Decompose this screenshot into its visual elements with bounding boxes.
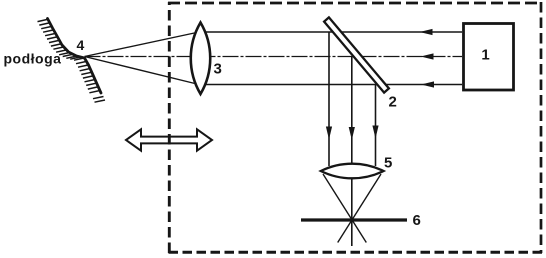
converging ray from left tip of lens 5 through focus xyxy=(323,174,366,243)
converging ray from right tip of lens 5 through focus xyxy=(338,174,381,243)
wire: reflected vertical beam (middle axis) from splitter through lens 5 to focus xyxy=(351,57,353,247)
wire: optical axis (dash-dot) from point 4 through lens 3 to source 1 xyxy=(85,56,463,58)
arrowhead on bottom beam (pointing left) xyxy=(421,81,434,87)
wire: bottom collimated beam from lens 3 to source 1 xyxy=(200,84,462,86)
dashed enclosure border: top edge xyxy=(168,2,542,5)
svg-text:5: 5 xyxy=(384,155,392,172)
svg-text:podłoga: podłoga xyxy=(4,51,62,67)
dashed enclosure border: bottom edge xyxy=(168,251,542,254)
floor surface (podloga) wavy line xyxy=(48,19,102,94)
arrowhead on middle vertical beam (pointing down) xyxy=(349,127,355,140)
source box 1 xyxy=(464,24,514,91)
wire: ray from point 4 to top of lens 3 xyxy=(85,32,200,57)
wire: top collimated beam from lens 3 to source 1 xyxy=(200,31,462,33)
svg-text:1: 1 xyxy=(481,47,489,64)
wire: ray from point 4 to bottom of lens 3 xyxy=(85,57,200,85)
floor hatching xyxy=(38,19,106,102)
dashed enclosure border: right edge xyxy=(540,2,543,253)
svg-text:3: 3 xyxy=(214,61,222,78)
wire: reflected vertical beam (right) from splitter to lens 5 xyxy=(375,85,377,167)
beam splitter 2 (slanted plate) xyxy=(324,17,389,92)
double-headed motion arrow xyxy=(126,129,212,150)
arrowhead on middle beam (pointing left) xyxy=(421,53,434,59)
arrowhead on right vertical beam (pointing down) xyxy=(372,126,378,139)
dashed enclosure border: left edge xyxy=(168,2,171,253)
lens 5 (focusing lens, horizontal biconvex) xyxy=(321,164,384,179)
detector plane 6 (thick horizontal line) xyxy=(301,218,407,221)
svg-text:6: 6 xyxy=(413,212,421,229)
svg-text:2: 2 xyxy=(389,94,397,111)
svg-text:4: 4 xyxy=(77,37,85,53)
lens 3 (collimating lens, vertical biconvex) xyxy=(191,23,210,95)
arrowhead on top beam (pointing left) xyxy=(420,29,433,35)
arrowhead on left vertical beam (pointing down) xyxy=(326,127,332,140)
wire: reflected vertical beam (left) from splitter to lens 5 xyxy=(328,32,330,166)
